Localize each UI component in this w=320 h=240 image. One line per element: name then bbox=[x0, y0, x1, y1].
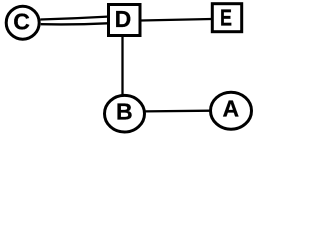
node A ellipse bbox=[211, 92, 252, 129]
node B ellipse bbox=[105, 95, 145, 132]
node E box bbox=[212, 4, 241, 32]
wire C-D double edge bottom bbox=[41, 23, 108, 24]
svg-text:C: C bbox=[13, 9, 30, 35]
wire B-A bbox=[145, 110, 211, 113]
svg-text:A: A bbox=[222, 96, 239, 122]
svg-text:D: D bbox=[115, 6, 132, 32]
wire D-B bbox=[121, 37, 123, 95]
node D box bbox=[109, 5, 141, 36]
wire C-D double edge top bbox=[40, 17, 107, 20]
svg-text:E: E bbox=[220, 5, 232, 31]
node C circle bbox=[6, 6, 39, 39]
svg-text:B: B bbox=[116, 99, 133, 125]
wire D-E bbox=[141, 19, 212, 21]
